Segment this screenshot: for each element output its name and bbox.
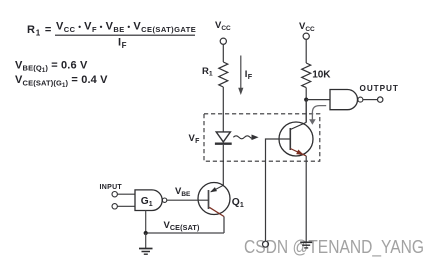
resistor 10K: [302, 63, 311, 88]
base terminal circle: [263, 241, 269, 247]
formula R1 equation: [27, 21, 196, 50]
junction dot at gate input node: [304, 98, 308, 102]
light emission squiggle arrow: [233, 135, 258, 141]
output terminal: [378, 97, 383, 102]
resistor R1: [219, 62, 228, 87]
ground symbol under G1: [139, 249, 153, 255]
wire phototransistor collector: [305, 100, 307, 123]
wire G1 bottom to ground junction: [145, 211, 147, 234]
wire Q1 emitter down: [223, 217, 225, 234]
gate G1: [135, 190, 162, 211]
wire VCC2 to 10K: [305, 39, 307, 63]
power VCC left terminal: [220, 38, 226, 44]
output gate U2: [330, 89, 358, 109]
power VCC right terminal: [303, 33, 309, 39]
wire input1 to G1: [117, 193, 135, 195]
wire VCE(SAT): [146, 232, 224, 234]
wire LED to Q1 collector: [222, 145, 224, 185]
input terminal 1: [112, 192, 117, 197]
transistor Q1: [198, 183, 230, 217]
ground symbol at emitter: [300, 242, 312, 248]
phototransistor: [279, 122, 313, 156]
fraction bar: [55, 34, 195, 36]
junction dot at ground node: [144, 231, 148, 235]
wire junction to ground: [145, 233, 147, 249]
optocoupler dashed box: [204, 114, 320, 161]
input terminal 2: [112, 204, 117, 209]
current arrow IF: [238, 56, 243, 96]
wire node to output gate: [306, 99, 330, 101]
wire VCC1 to R1: [222, 44, 224, 62]
svg-text:OUTPUT: OUTPUT: [360, 84, 399, 93]
wire input2 to G1: [117, 205, 135, 207]
svg-text:CSDN @TENAND_YANG: CSDN @TENAND_YANG: [244, 236, 424, 258]
wire gate to output terminal: [363, 99, 377, 101]
wire R1 to LED: [222, 87, 224, 132]
wire 10K to phototransistor collector: [305, 88, 307, 123]
svg-text:INPUT: INPUT: [100, 184, 123, 191]
output gate bubble: [358, 97, 363, 102]
gate G1 output bubble: [162, 198, 166, 202]
svg-text:10K: 10K: [312, 70, 331, 81]
wire phototransistor emitter to ground: [305, 156, 307, 242]
wire phototransistor base: [266, 139, 291, 241]
wire G1 output to Q1 base (VBE node): [167, 199, 209, 201]
LED diode: [215, 132, 232, 144]
current flow curved arrow into phototransistor: [309, 106, 326, 125]
